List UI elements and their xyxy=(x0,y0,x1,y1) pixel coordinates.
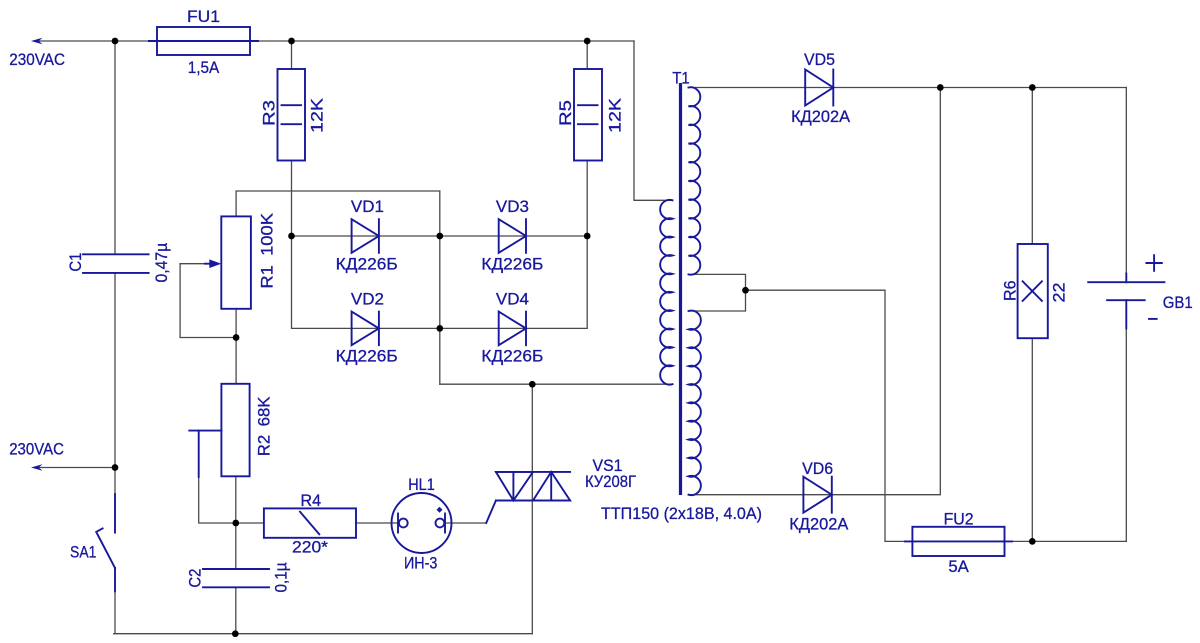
junction rectifier output/VD6 rail xyxy=(937,84,944,91)
net 230VAC bottom arrow xyxy=(31,464,43,471)
battery GB1 positive plate xyxy=(1088,281,1164,283)
svg-text:КД202А: КД202А xyxy=(791,107,851,126)
svg-text:R4: R4 xyxy=(301,491,322,510)
wire GB1 positive lead xyxy=(1125,88,1127,274)
wire R5 bottom to VD3 row xyxy=(586,161,588,237)
fuse FU1 xyxy=(157,27,250,55)
junction VD1 cathode/VD3 anode xyxy=(436,233,443,240)
junction triac anode rail xyxy=(529,381,536,388)
capacitor C1 xyxy=(83,253,149,255)
net 230VAC top arrow xyxy=(31,38,43,45)
diode VD1 xyxy=(352,219,379,253)
svg-text:230VAC: 230VAC xyxy=(9,50,65,69)
diode VD3 xyxy=(499,219,526,253)
junction 230VAC bottom tap xyxy=(112,464,119,471)
battery GB1 negative plate xyxy=(1107,299,1145,301)
svg-text:0,1µ: 0,1µ xyxy=(272,562,291,592)
junction R6 bottom/FU2 output xyxy=(1029,538,1036,545)
svg-text:12K: 12K xyxy=(606,97,625,133)
junction VD2 cathode/VD4 anode xyxy=(436,325,443,332)
wire left column upper (junction to C1) xyxy=(114,41,116,254)
wire VD3 row xyxy=(440,235,587,237)
svg-text:ТТП150 (2х18В, 4.0А): ТТП150 (2х18В, 4.0А) xyxy=(601,504,762,523)
svg-text:КУ208Г: КУ208Г xyxy=(585,472,636,491)
svg-text:FU2: FU2 xyxy=(944,509,974,528)
wire R6 top lead xyxy=(1031,88,1033,245)
junction R1 wiper return xyxy=(233,334,240,341)
wire triac anode rail to primary bottom xyxy=(440,383,671,385)
wire R6 bottom lead xyxy=(1031,338,1033,541)
wire left column to switch xyxy=(114,468,116,495)
wire R5 top lead xyxy=(586,41,588,69)
svg-text:КД202А: КД202А xyxy=(789,515,849,534)
wire center tap to FU2 xyxy=(746,290,907,541)
svg-text:FU1: FU1 xyxy=(187,7,220,26)
svg-text:R1 100K: R1 100K xyxy=(258,212,277,288)
diode VD2 xyxy=(352,312,379,346)
wire R1 wiper return xyxy=(180,264,236,338)
wire R3 top lead xyxy=(291,41,293,69)
wire VD1 row xyxy=(292,235,440,237)
junction transformer center tap xyxy=(742,287,749,294)
svg-text:C2: C2 xyxy=(186,569,205,588)
wire VD3 cathode junction down to VD4 row xyxy=(526,236,587,328)
svg-text:ИН-3: ИН-3 xyxy=(404,554,437,573)
resistor R3 xyxy=(278,69,306,161)
wire VD6 cathode to rectifier output xyxy=(832,88,941,495)
svg-text:220*: 220* xyxy=(292,537,328,556)
transformer T1 primary winding xyxy=(660,200,672,385)
switch SA1 xyxy=(114,494,116,532)
transformer T1 secondary upper winding xyxy=(689,87,701,274)
wire GB1 negative lead xyxy=(1125,328,1127,541)
wire triac vertical xyxy=(531,384,533,634)
svg-text:КД226Б: КД226Б xyxy=(481,254,543,273)
wire R3 bottom to VD1 row xyxy=(291,161,293,237)
transformer T1 core xyxy=(679,83,682,495)
svg-text:1,5A: 1,5A xyxy=(188,58,220,77)
wire VD2 row xyxy=(352,327,440,329)
battery GB1 positive stub xyxy=(1125,274,1127,283)
svg-text:VD1: VD1 xyxy=(351,197,384,216)
resistor R5 xyxy=(574,69,602,161)
junction R2/R4/C2 xyxy=(232,520,239,527)
wire VD1 row left vertical down to VD2 row xyxy=(292,236,352,328)
wire R2 tap return xyxy=(199,477,236,523)
svg-text:T1: T1 xyxy=(672,68,690,87)
svg-text:HL1: HL1 xyxy=(408,475,435,494)
svg-text:12K: 12K xyxy=(308,97,327,133)
svg-text:VD5: VD5 xyxy=(804,50,835,69)
svg-text:230VAC: 230VAC xyxy=(9,440,64,459)
neon lamp HL1 xyxy=(392,493,452,553)
svg-text:R2 68K: R2 68K xyxy=(255,396,274,456)
wire center vertical VD1/VD2 junctions xyxy=(439,191,441,384)
wire VD4 row xyxy=(440,327,526,329)
potentiometer R1 xyxy=(221,216,251,308)
triac VS1 gate lead xyxy=(486,501,496,524)
resistor R4 xyxy=(264,508,356,537)
svg-text:0,47µ: 0,47µ xyxy=(152,243,171,283)
battery GB1 plus sign xyxy=(1146,262,1161,264)
wire 230VAC bottom stub xyxy=(38,467,115,469)
wire FU2 output rail xyxy=(1005,540,1127,542)
svg-text:VD4: VD4 xyxy=(496,290,529,309)
svg-text:VD6: VD6 xyxy=(802,459,833,478)
wire lamp HL1 to triac gate xyxy=(445,522,486,524)
svg-text:5A: 5A xyxy=(948,557,969,576)
wire R1 wiper horizontal xyxy=(180,263,210,265)
battery GB1 negative stub xyxy=(1125,300,1127,328)
junction mains/R5 xyxy=(584,38,591,45)
wire R1 top lead and cross rail xyxy=(236,191,440,216)
diode VD5 xyxy=(805,70,833,106)
wire left column middle (C1 to 230VAC tap) xyxy=(114,273,116,468)
junction R3/VD1 anode xyxy=(288,233,295,240)
R2 tap lead xyxy=(189,430,221,432)
junction VD3 cathode/R5 xyxy=(584,233,591,240)
svg-text:VD3: VD3 xyxy=(496,197,529,216)
transformer T1 secondary lower winding xyxy=(689,311,701,496)
svg-text:R3: R3 xyxy=(260,100,279,126)
wire C2 top lead xyxy=(235,523,237,569)
diode VD4 xyxy=(499,312,526,346)
svg-text:R5: R5 xyxy=(556,100,575,126)
battery GB1 minus sign xyxy=(1149,318,1157,320)
junction mains/left column xyxy=(112,38,119,45)
wire bottom rail xyxy=(114,633,533,635)
svg-text:C1: C1 xyxy=(66,253,85,272)
svg-text:КД226Б: КД226Б xyxy=(336,254,398,273)
capacitor C2 xyxy=(203,568,269,570)
svg-text:КД226Б: КД226Б xyxy=(336,347,398,366)
wire switch bottom to bottom rail xyxy=(114,591,116,633)
R1 wiper arrow xyxy=(209,259,221,268)
svg-text:GB1: GB1 xyxy=(1163,293,1193,312)
wire R2 bottom lead xyxy=(235,476,237,523)
fuse FU2 xyxy=(912,527,1004,556)
wire top mains rail xyxy=(38,40,634,42)
wire R4 to lamp HL1 xyxy=(356,522,398,524)
svg-text:VD2: VD2 xyxy=(351,290,384,309)
svg-text:R6: R6 xyxy=(1001,280,1020,301)
potentiometer R2 xyxy=(221,384,249,477)
junction bottom rail/C2 xyxy=(232,630,239,637)
svg-text:22: 22 xyxy=(1050,283,1069,303)
wire secondary center tap upper lead xyxy=(689,274,746,290)
diode VD6 xyxy=(803,477,831,513)
resistor R6 (lamp-ballast) xyxy=(1018,244,1048,338)
junction rectifier output/R6 top xyxy=(1029,84,1036,91)
svg-text:КД226Б: КД226Б xyxy=(481,347,543,366)
wire secondary center tap lower lead xyxy=(689,290,746,311)
wire C2 bottom lead xyxy=(235,587,237,633)
svg-text:SA1: SA1 xyxy=(70,543,96,562)
junction mains/R3 xyxy=(288,38,295,45)
wire vertical to transformer primary top xyxy=(634,41,671,200)
wire secondary bottom rail through VD6 xyxy=(689,494,832,496)
wire secondary top rail through VD5 xyxy=(689,87,1126,89)
triac VS1 xyxy=(496,471,570,473)
wire R2 junction to R4 xyxy=(236,522,264,524)
wire R1 bottom lead to R2 top xyxy=(235,309,237,384)
